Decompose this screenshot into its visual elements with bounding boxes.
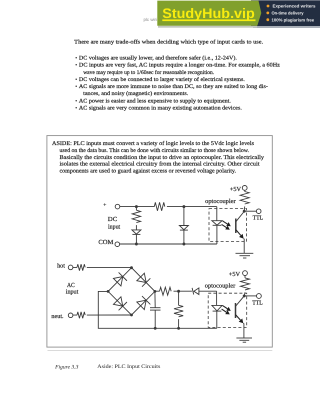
bullet line 4: [75, 77, 245, 83]
aside box shadow line: [48, 349, 273, 351]
wire +5V to resistor (AC): [244, 276, 246, 278]
terminal hot: [68, 265, 73, 270]
wire hot to bridge top: [73, 266, 132, 268]
wire LED to bottom rail (DC): [216, 225, 218, 244]
svg-text:ASIDE: PLC inputs must convert: ASIDE: PLC inputs must convert a variety…: [52, 140, 255, 147]
svg-text:isolates the external electric: isolates the external electrical circuit…: [60, 161, 260, 168]
svg-text:Aside: PLC Input Circuits: Aside: PLC Input Circuits: [97, 364, 160, 370]
svg-text:•: •: [75, 106, 77, 112]
wire DC left branch middle: [135, 225, 137, 230]
wire into LED (AC): [216, 291, 218, 305]
optocoupler U1 dashed box: [209, 209, 247, 242]
node AC top: [177, 290, 180, 293]
LED light arrows (U2): [222, 306, 231, 315]
wire DC left branch lower: [135, 234, 137, 244]
svg-text:components are used to guard a: components are used to guard against exc…: [60, 167, 237, 174]
svg-text:•: •: [75, 77, 77, 83]
svg-text:TTL: TTL: [252, 300, 263, 307]
resistor DC series: [154, 202, 165, 210]
resistor DC input shunt: [132, 210, 140, 222]
svg-text:100% plagiarism free: 100% plagiarism free: [272, 17, 315, 22]
ground (DC circuit): [236, 253, 254, 258]
svg-text:TTL: TTL: [253, 215, 264, 222]
olive logo box: [157, 1, 261, 26]
wire AC top rail: [155, 290, 217, 292]
svg-text:neut.: neut.: [51, 313, 64, 320]
wire DC left branch upper: [135, 207, 137, 211]
resistor pull-up R (DC): [240, 192, 249, 205]
wire shunt resistor to rail: [178, 319, 180, 328]
node shunt bottom: [177, 327, 180, 330]
svg-text:optocoupler: optocoupler: [205, 283, 235, 290]
terminal +5V (DC): [242, 186, 247, 191]
svg-text:•: •: [75, 98, 77, 104]
svg-text:On-time delivery: On-time delivery: [272, 11, 305, 16]
svg-text:AC signals are very common in: AC signals are very common in many exist…: [79, 106, 243, 112]
node DC top left: [135, 205, 138, 208]
svg-text:Figure 3.3: Figure 3.3: [54, 364, 79, 370]
terminal +5V (AC): [243, 271, 248, 276]
svg-text:+: +: [103, 203, 106, 209]
terminal TTL (AC): [257, 294, 262, 299]
icon on-time delivery: [266, 12, 269, 15]
wire neut to bridge bottom: [73, 314, 132, 316]
bullet line 7: [75, 98, 231, 104]
LED D4 (optocoupler U2): [212, 305, 222, 311]
LED light arrows (U1): [222, 221, 231, 230]
logo underline: [162, 19, 255, 21]
svg-text:+5V: +5V: [230, 186, 242, 193]
wire bridge right to cap: [154, 291, 156, 307]
terminal TTL (DC): [256, 209, 261, 214]
svg-text:Experienced writers: Experienced writers: [273, 4, 317, 9]
aside box border: [47, 136, 272, 348]
svg-text:Basically the circuits conditi: Basically the circuits condition the inp…: [60, 154, 265, 161]
node Q1 collector: [243, 210, 246, 213]
bullet line 8: [75, 106, 242, 112]
olive logo box shadow: [158, 26, 257, 28]
bridge diode top-left: [113, 272, 127, 286]
wire into LED (DC): [216, 207, 218, 221]
wire DC bottom rail: [120, 243, 217, 245]
wire DC right branch lower: [183, 230, 185, 244]
svg-text:tances, and noisy (magnetic) e: tances, and noisy (magnetic) environment…: [83, 91, 189, 97]
svg-text:DC: DC: [108, 216, 118, 223]
wire collector to TTL: [244, 210, 256, 212]
svg-text:wave may require up to 1/60sec: wave may require up to 1/60sec for reaso…: [83, 70, 215, 76]
node Q2 collector: [243, 294, 246, 297]
node bridge left: [107, 290, 110, 293]
bridge diode bottom-left: [113, 296, 127, 310]
resistor AC series 2: [160, 287, 172, 295]
wire resistor to collector node (AC): [243, 292, 246, 296]
wire Q1 emitter to ground: [243, 239, 246, 254]
wire DC top rail: [120, 206, 217, 208]
svg-text:AC signals are more immune to: AC signals are more immune to noise than…: [79, 84, 268, 90]
node DC bottom right: [182, 243, 185, 246]
svg-text:StudyHub.vip: StudyHub.vip: [162, 6, 255, 21]
svg-text:input: input: [66, 288, 79, 295]
phototransistor Q2 base bar: [235, 303, 237, 318]
wire LED to bottom rail (AC): [216, 311, 218, 328]
svg-text:DC inputs are very fast, AC in: DC inputs are very fast, AC inputs requi…: [79, 63, 281, 69]
LED D3 (optocoupler U1): [212, 221, 222, 226]
node DC bottom left: [135, 243, 138, 246]
bridge diode top-right: [136, 273, 150, 287]
wire cap to bottom rail: [154, 310, 156, 328]
svg-text:COM: COM: [98, 239, 114, 246]
diode D1 (left branch): [132, 230, 141, 235]
resistor pull-up R (AC): [241, 278, 250, 290]
svg-text:AC power is easier and less ex: AC power is easier and less expensive to…: [79, 98, 232, 104]
Q2 collector: [236, 296, 245, 306]
icon plagiarism free: [266, 18, 269, 21]
svg-text:used on the data bus. This can: used on the data bus. This can be done w…: [60, 147, 250, 154]
wire +5V to resistor (DC): [244, 190, 246, 191]
node cap bottom: [154, 327, 157, 330]
terminal COM: [115, 242, 120, 247]
icon experienced writers: [267, 5, 270, 8]
bullet line 2: [75, 63, 280, 69]
bullet line 5: [75, 84, 268, 90]
wire bridge left to bottom rail: [98, 291, 217, 328]
resistor AC shunt: [178, 291, 180, 305]
svg-text:DC voltages can be connected t: DC voltages can be connected to larger v…: [79, 77, 246, 83]
wire collector to TTL (AC): [244, 295, 256, 297]
svg-text:•: •: [75, 84, 77, 90]
navy info box: [251, 0, 320, 26]
node bridge bottom: [130, 314, 133, 317]
svg-text:•: •: [75, 63, 77, 69]
bridge rectifier edges: [108, 268, 155, 315]
label DC input: [108, 216, 121, 231]
wire Q2 emitter to ground: [242, 323, 245, 338]
svg-text:hot: hot: [57, 263, 65, 270]
Q2 emitter with arrow: [236, 315, 241, 320]
phototransistor Q1 base bar: [235, 219, 237, 234]
Q1 collector: [236, 211, 244, 221]
diode D2 (clamp): [179, 226, 188, 231]
node bridge top: [130, 266, 133, 269]
svg-text:•: •: [75, 55, 77, 61]
label AC input: [66, 282, 79, 296]
svg-text:optocoupler: optocoupler: [205, 198, 235, 205]
terminal neut.: [68, 313, 73, 318]
wire DC right branch upper: [183, 207, 185, 226]
svg-text:+5V: +5V: [229, 271, 241, 278]
navy box shadow: [253, 26, 320, 28]
bridge diode bottom-right: [136, 296, 150, 310]
node bridge right: [154, 290, 157, 293]
resistor neut series: [77, 312, 85, 318]
bullet line 1: [75, 55, 237, 61]
ground (AC circuit): [236, 338, 252, 342]
svg-text:input: input: [108, 224, 120, 231]
zener diode Z1: [192, 288, 199, 295]
resistor hot series: [77, 264, 85, 270]
capacitor C1: [150, 308, 161, 310]
node DC top right: [182, 205, 185, 208]
optocoupler U2 dashed box: [208, 293, 247, 327]
wire resistor to collector node (DC): [243, 207, 246, 212]
Q1 emitter with arrow: [236, 230, 241, 236]
terminal + (DC input): [115, 204, 120, 209]
svg-text:There are many trade-offs when: There are many trade-offs when deciding …: [74, 40, 264, 46]
svg-text:plc wiri: plc wiri: [144, 17, 157, 22]
svg-text:DC voltages are usually lower,: DC voltages are usually lower, and there…: [79, 55, 238, 61]
